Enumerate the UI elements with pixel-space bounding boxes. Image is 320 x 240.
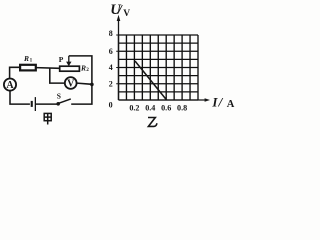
svg-text:0.2: 0.2 [129, 103, 139, 112]
svg-text:A: A [6, 80, 14, 91]
svg-text:I: I [211, 95, 218, 110]
svg-text:4: 4 [109, 63, 113, 72]
svg-text:R: R [23, 54, 29, 63]
svg-text:S: S [57, 91, 61, 100]
svg-text:R: R [80, 64, 86, 73]
svg-text:2: 2 [86, 67, 89, 73]
svg-text:8: 8 [109, 29, 113, 38]
svg-text:2: 2 [109, 79, 113, 88]
svg-text:0.4: 0.4 [145, 103, 155, 112]
svg-text:V: V [123, 9, 130, 19]
svg-text:V: V [67, 78, 75, 89]
svg-text:1: 1 [30, 58, 33, 64]
svg-text:0.8: 0.8 [177, 103, 187, 112]
svg-text:6: 6 [109, 47, 113, 56]
svg-text:P: P [59, 55, 64, 64]
svg-text:0.6: 0.6 [161, 103, 171, 112]
svg-text:A: A [227, 99, 235, 110]
svg-text:0: 0 [109, 100, 113, 109]
